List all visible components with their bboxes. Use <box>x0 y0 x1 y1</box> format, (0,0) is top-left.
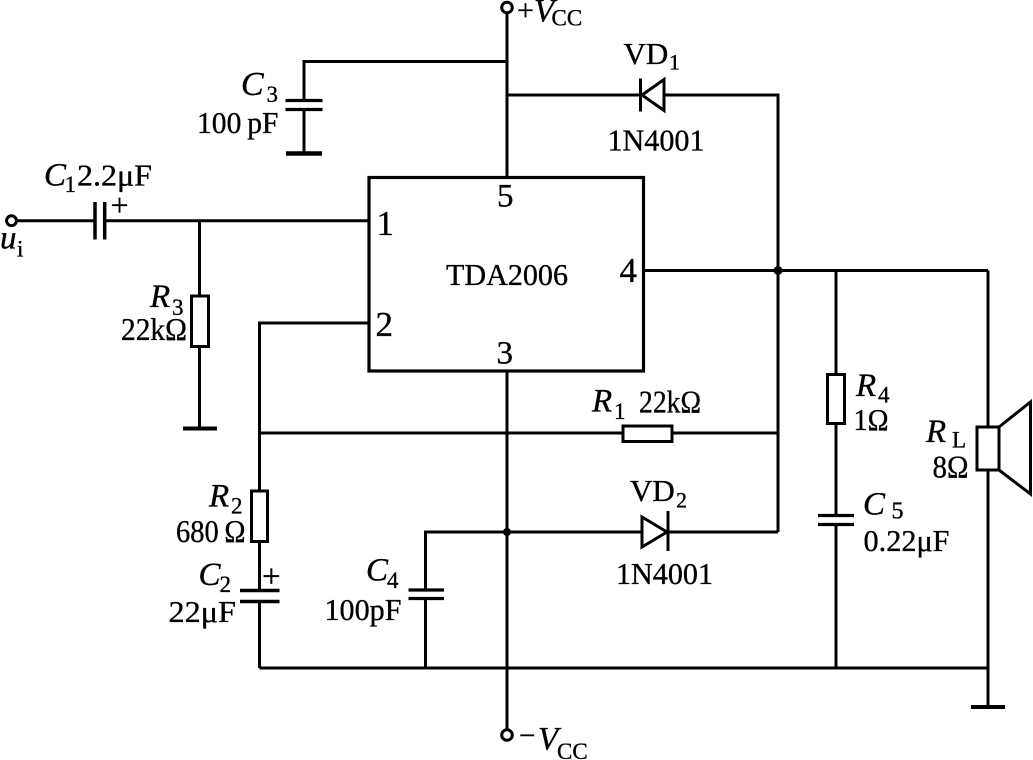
resistor R4 <box>828 375 845 424</box>
capacitor C5 <box>818 516 854 525</box>
svg-text:+: + <box>111 187 129 223</box>
wire C2 to bottom rail <box>258 603 261 668</box>
wire feedback rail to R1 <box>260 432 624 435</box>
svg-text:1: 1 <box>377 204 395 243</box>
ground below R3 <box>183 427 217 431</box>
wire right branch down to VD2 <box>777 271 780 533</box>
svg-text:22kΩ: 22kΩ <box>639 384 701 420</box>
speaker RL body <box>977 427 999 470</box>
resistor R3 <box>192 296 209 347</box>
wire speaker to ground <box>987 470 990 705</box>
wire Vcc to VD1 <box>507 94 640 97</box>
svg-text:TDA2006: TDA2006 <box>446 257 568 292</box>
svg-text:8Ω: 8Ω <box>933 449 969 485</box>
svg-text:1N4001: 1N4001 <box>608 123 705 158</box>
ground below C3 <box>286 151 322 156</box>
svg-text:3: 3 <box>497 336 514 372</box>
speaker RL horn <box>999 402 1031 494</box>
capacitor C1 <box>95 202 105 240</box>
svg-text:680 Ω: 680 Ω <box>176 514 246 549</box>
terminal ui input <box>7 216 17 226</box>
wire C4 to bottom rail <box>424 600 427 668</box>
svg-text:4: 4 <box>620 251 638 290</box>
ground bottom right <box>971 705 1005 709</box>
capacitor C3 <box>286 101 323 110</box>
wire R3 to ground <box>198 347 201 428</box>
capacitor C4 <box>409 590 445 599</box>
svg-text:0.22μF: 0.22μF <box>864 523 950 558</box>
wire node to VD2 <box>507 531 642 534</box>
terminal +Vcc <box>502 2 513 13</box>
resistor R1 <box>623 426 672 442</box>
wire R3 stub <box>198 221 201 296</box>
wire R1 to right branch <box>672 432 778 435</box>
svg-text:5: 5 <box>497 179 514 215</box>
wire top rail to C3 <box>304 62 507 101</box>
wire C5 to bottom rail <box>835 526 838 668</box>
op-amp U1 TDA2006 box <box>369 178 644 372</box>
svg-text:1N4001: 1N4001 <box>616 556 713 591</box>
svg-text:22kΩ: 22kΩ <box>121 311 187 347</box>
diode VD2 <box>642 511 668 551</box>
wire VD1 to right branch <box>664 95 778 271</box>
terminal -Vcc <box>502 730 513 741</box>
wire R2 to C2 <box>258 542 261 590</box>
node pin3/VD2 junction <box>503 528 511 536</box>
wire R4 stub <box>835 271 838 375</box>
wire C3 to ground <box>303 111 306 152</box>
svg-text:22μF: 22μF <box>169 594 237 629</box>
wire +Vcc vertical to pin 5 <box>506 13 509 178</box>
wire speaker drop <box>987 271 990 428</box>
svg-text:2: 2 <box>376 305 394 344</box>
wire input <box>17 219 369 222</box>
wire pin 2 to R2 <box>260 323 370 491</box>
wire R4 to C5 <box>835 424 838 515</box>
diode VD1 <box>641 79 665 112</box>
svg-text:100 pF: 100 pF <box>197 105 279 140</box>
wire bottom rail <box>260 667 989 670</box>
resistor R2 <box>252 491 268 542</box>
wire pin 3 down to -Vcc <box>506 371 509 729</box>
wire C4 branch <box>426 532 508 589</box>
svg-text:+: + <box>262 559 281 595</box>
capacitor C2 <box>240 591 280 602</box>
node pin4/VD1 junction <box>774 266 783 275</box>
svg-text:100pF: 100pF <box>325 592 402 627</box>
wire pin 4 rail <box>644 269 989 272</box>
svg-text:1Ω: 1Ω <box>854 402 889 437</box>
wire VD2 to right branch <box>668 531 778 534</box>
